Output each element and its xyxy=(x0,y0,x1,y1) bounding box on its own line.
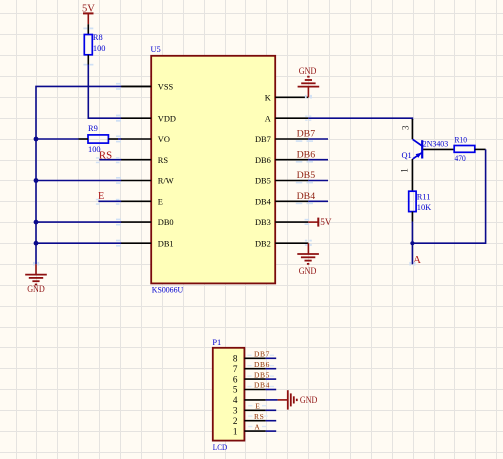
ground GND (P1 pin4, right-pointing) xyxy=(278,390,318,409)
svg-text:GND: GND xyxy=(300,395,318,405)
collector pin xyxy=(411,119,413,139)
wire stub to A xyxy=(411,243,413,264)
svg-text:10K: 10K xyxy=(417,203,431,212)
svg-text:7: 7 xyxy=(233,364,238,374)
wire DB1 xyxy=(36,242,122,244)
svg-text:R9: R9 xyxy=(88,124,98,133)
emitter pin xyxy=(411,159,413,191)
svg-text:DB6: DB6 xyxy=(255,156,271,165)
U5 right pins xyxy=(275,97,308,243)
svg-text:P1: P1 xyxy=(212,338,221,347)
svg-text:DB1: DB1 xyxy=(158,239,174,248)
svg-text:DB6: DB6 xyxy=(254,360,270,369)
svg-text:GND: GND xyxy=(299,66,317,76)
svg-text:E: E xyxy=(158,197,163,206)
svg-text:DB2: DB2 xyxy=(255,239,271,248)
svg-text:VDD: VDD xyxy=(158,114,176,123)
wire DB7 stub xyxy=(308,138,328,140)
wire R11 to junction xyxy=(411,212,413,222)
svg-text:VO: VO xyxy=(158,135,170,144)
resistor R10 xyxy=(454,136,475,163)
wire DB6 stub xyxy=(308,159,328,161)
connector P1 xyxy=(212,338,244,452)
resistor R9 xyxy=(88,124,108,154)
svg-text:R11: R11 xyxy=(417,192,431,201)
svg-text:LCD: LCD xyxy=(213,443,227,452)
svg-text:5V: 5V xyxy=(320,217,332,227)
ground GND (below DB2) xyxy=(297,243,319,276)
ground GND (bottom left) xyxy=(25,264,47,294)
wire R/W xyxy=(36,180,122,182)
wire DB4 stub xyxy=(308,200,328,202)
svg-text:DB5: DB5 xyxy=(297,170,316,181)
P1 pins xyxy=(244,358,265,431)
wire DB5 stub xyxy=(308,180,328,182)
wire VSS rail top xyxy=(122,85,152,87)
svg-text:U5: U5 xyxy=(151,45,161,54)
svg-text:DB0: DB0 xyxy=(158,218,174,227)
svg-text:GND: GND xyxy=(27,284,45,294)
svg-text:100: 100 xyxy=(93,44,106,53)
svg-text:GND: GND xyxy=(299,266,317,276)
svg-text:4: 4 xyxy=(233,395,238,405)
junction xyxy=(410,241,414,245)
wire rail to R9 xyxy=(36,138,79,140)
wire E xyxy=(98,200,121,202)
svg-text:DB7: DB7 xyxy=(254,350,270,359)
ground GND (above K) flipped xyxy=(298,66,320,97)
wire RS xyxy=(99,159,121,161)
P1 net labels xyxy=(254,350,270,432)
svg-text:3: 3 xyxy=(401,125,411,130)
P1 pin numbers xyxy=(233,354,238,437)
base bar xyxy=(421,140,423,158)
U5 right pin names xyxy=(255,93,272,248)
svg-text:R8: R8 xyxy=(93,33,103,42)
svg-text:DB5: DB5 xyxy=(255,177,271,186)
svg-text:KS0066U: KS0066U xyxy=(152,285,183,294)
svg-text:A: A xyxy=(254,422,260,431)
svg-text:A: A xyxy=(265,114,271,123)
P1 wire stubs xyxy=(266,358,278,431)
svg-text:2: 2 xyxy=(233,416,238,426)
svg-text:E: E xyxy=(98,191,104,202)
U5 left pin names xyxy=(158,83,176,249)
svg-text:Q1: Q1 xyxy=(402,151,412,160)
wire 5V to R8 xyxy=(87,24,89,34)
svg-text:E: E xyxy=(255,402,260,411)
junction rail/R9 xyxy=(34,137,39,142)
svg-text:2N3403: 2N3403 xyxy=(423,140,448,149)
svg-text:K: K xyxy=(265,93,271,102)
svg-text:8: 8 xyxy=(233,354,238,364)
svg-text:DB7: DB7 xyxy=(297,129,316,140)
wire R9 to VO xyxy=(108,138,118,140)
svg-text:3: 3 xyxy=(233,406,238,416)
svg-text:470: 470 xyxy=(455,154,466,163)
svg-text:6: 6 xyxy=(233,374,238,384)
collector diagonal xyxy=(413,139,423,146)
svg-text:DB4: DB4 xyxy=(255,197,272,206)
svg-text:R/W: R/W xyxy=(158,177,174,186)
wire R10 to right rail xyxy=(475,148,486,150)
transistor Q1 xyxy=(400,119,455,191)
svg-text:1: 1 xyxy=(400,168,410,173)
emitter diagonal with arrow xyxy=(413,152,423,159)
svg-text:DB7: DB7 xyxy=(255,135,271,144)
svg-text:VSS: VSS xyxy=(158,83,174,92)
svg-text:DB4: DB4 xyxy=(254,381,270,390)
svg-text:5: 5 xyxy=(233,385,238,395)
svg-text:DB3: DB3 xyxy=(255,218,271,227)
svg-text:R10: R10 xyxy=(455,136,468,145)
power port 5V (at DB3) xyxy=(308,217,332,227)
base pin xyxy=(423,148,454,150)
U5 left pins xyxy=(121,86,151,243)
svg-text:DB6: DB6 xyxy=(297,149,316,160)
wire R8 to VDD corner xyxy=(87,55,89,65)
resistor R8 xyxy=(84,33,105,55)
IC U5 KS0066U xyxy=(151,45,276,295)
svg-text:DB5: DB5 xyxy=(254,370,270,379)
svg-text:1: 1 xyxy=(233,426,238,436)
svg-text:RS: RS xyxy=(158,156,169,165)
power port 5V (top left) xyxy=(82,4,95,25)
resistor R11 xyxy=(409,191,432,212)
wire A to transistor xyxy=(308,118,412,120)
svg-text:RS: RS xyxy=(254,412,264,421)
svg-text:DB4: DB4 xyxy=(297,191,316,202)
wire DB0 xyxy=(36,221,122,223)
